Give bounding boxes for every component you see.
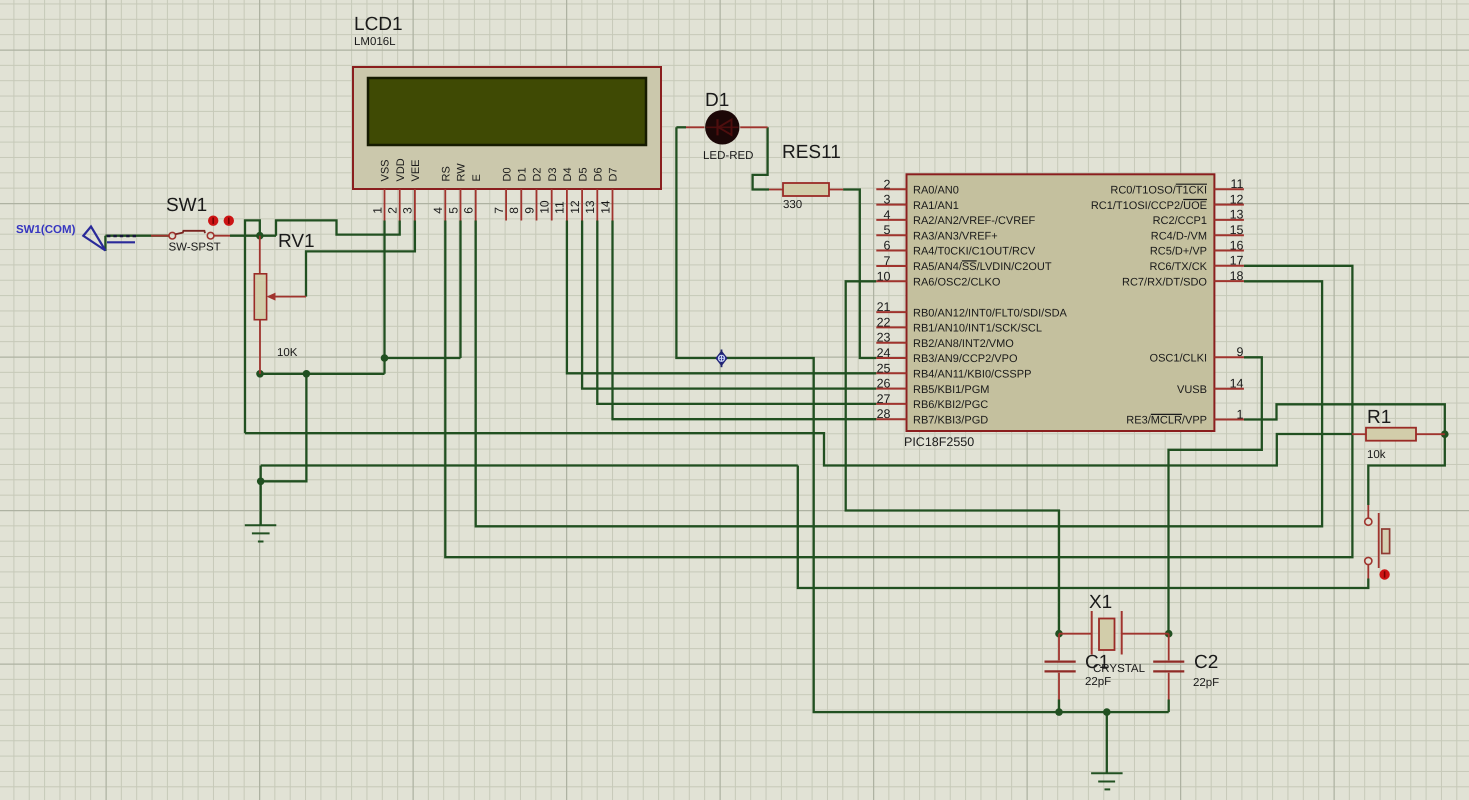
svg-text:RC0/T1OSO/T1CKI: RC0/T1OSO/T1CKI — [1110, 185, 1207, 197]
svg-text:LM016L: LM016L — [354, 36, 396, 48]
svg-text:D1: D1 — [705, 90, 729, 111]
svg-text:RV1: RV1 — [278, 231, 315, 252]
svg-text:D7: D7 — [608, 167, 620, 181]
svg-text:17: 17 — [1230, 254, 1244, 268]
svg-text:12: 12 — [568, 200, 582, 214]
ground 2 junction — [1103, 708, 1111, 716]
push button actuator dot — [1379, 569, 1389, 579]
svg-text:SW1(COM): SW1(COM) — [16, 224, 76, 236]
potentiometer RV1 wiper — [274, 296, 306, 298]
wire +5V rail to R1 — [245, 433, 1352, 465]
potentiometer RV1 body — [254, 274, 266, 320]
wire OSC2 pin10 to crystal left — [846, 281, 1059, 633]
svg-text:RA4/T0CKI/C1OUT/RCV: RA4/T0CKI/C1OUT/RCV — [913, 246, 1036, 258]
microcontroller U1 left pin stubs — [876, 188, 906, 190]
svg-text:RB5/KBI1/PGM: RB5/KBI1/PGM — [913, 384, 989, 396]
svg-text:10k: 10k — [1367, 449, 1386, 461]
svg-text:D1: D1 — [517, 167, 529, 181]
crystal left junction — [1055, 630, 1063, 638]
svg-text:13: 13 — [583, 200, 597, 214]
wire C2 bottom — [1168, 700, 1170, 713]
svg-text:E: E — [471, 174, 483, 181]
svg-text:21: 21 — [877, 300, 891, 314]
RV1 bottom junction — [256, 370, 264, 378]
svg-text:2: 2 — [884, 177, 891, 191]
svg-text:8: 8 — [507, 207, 521, 214]
svg-text:22pF: 22pF — [1085, 676, 1111, 688]
ground node junction — [257, 478, 265, 486]
svg-text:RA2/AN2/VREF-/CVREF: RA2/AN2/VREF-/CVREF — [913, 215, 1036, 227]
svg-text:RS: RS — [441, 166, 453, 181]
crystal X1 — [1091, 611, 1093, 655]
svg-text:RB3/AN9/CCP2/VPO: RB3/AN9/CCP2/VPO — [913, 353, 1018, 365]
svg-text:LCD1: LCD1 — [354, 14, 403, 35]
svg-text:RC6/TX/CK: RC6/TX/CK — [1150, 261, 1208, 273]
capacitor C1 plates — [1045, 660, 1076, 662]
svg-text:D2: D2 — [532, 167, 544, 181]
svg-text:D3: D3 — [547, 167, 559, 181]
svg-text:1: 1 — [1237, 407, 1244, 421]
microcontroller U1 overlines — [1176, 183, 1207, 185]
wire node A to +5V rail — [245, 220, 260, 433]
svg-text:18: 18 — [1230, 269, 1244, 283]
svg-text:D5: D5 — [577, 167, 589, 181]
svg-text:14: 14 — [1230, 377, 1244, 391]
wire OSC1 pin 9 to crystal right — [1169, 357, 1262, 633]
R1/MCLR junction — [1441, 430, 1449, 438]
ground 1 — [260, 481, 262, 525]
svg-text:RB6/KBI2/PGC: RB6/KBI2/PGC — [913, 399, 988, 411]
capacitor C1 leads — [1058, 634, 1060, 661]
wire ground 2 stem — [1106, 712, 1108, 773]
resistor R1 body — [1366, 428, 1416, 441]
node A junction — [256, 232, 264, 240]
svg-text:13: 13 — [1230, 208, 1244, 222]
svg-text:RW: RW — [456, 163, 468, 182]
capacitor C2 leads — [1168, 634, 1170, 661]
ground 2 — [1091, 772, 1123, 774]
wire ground node stem — [260, 466, 262, 482]
svg-text:4: 4 — [884, 208, 891, 222]
svg-text:RA3/AN3/VREF+: RA3/AN3/VREF+ — [913, 230, 998, 242]
svg-text:10: 10 — [538, 200, 552, 214]
ground branch junction — [303, 370, 311, 378]
wire D4 to RB4 — [567, 221, 876, 374]
svg-text:RC5/D+/VP: RC5/D+/VP — [1150, 246, 1207, 258]
svg-text:9: 9 — [1237, 345, 1244, 359]
svg-text:RC7/RX/DT/SDO: RC7/RX/DT/SDO — [1122, 276, 1207, 288]
wire terminal stem — [104, 236, 106, 251]
svg-text:D4: D4 — [562, 167, 574, 181]
svg-text:RA5/AN4/SS/LVDIN/C2OUT: RA5/AN4/SS/LVDIN/C2OUT — [913, 261, 1052, 273]
switch SW1 — [151, 235, 169, 237]
svg-text:RA1/AN1: RA1/AN1 — [913, 200, 959, 212]
svg-text:28: 28 — [877, 407, 891, 421]
microcontroller U1 right pin stubs — [1214, 188, 1244, 190]
potentiometer RV1 leads — [259, 236, 261, 274]
wire VSS net — [383, 221, 385, 374]
svg-text:10: 10 — [877, 269, 891, 283]
VSS/RW junction — [381, 354, 389, 362]
svg-text:VDD: VDD — [395, 158, 407, 181]
wire RV1 bottom to ground node — [261, 374, 307, 482]
wire LED cathode to ground bus — [676, 127, 1168, 712]
svg-text:5: 5 — [446, 207, 460, 214]
svg-text:11: 11 — [553, 201, 567, 214]
wire C1 bottom — [1058, 700, 1060, 713]
LED D1 body — [705, 110, 739, 144]
svg-text:RE3/MCLR/VPP: RE3/MCLR/VPP — [1126, 415, 1207, 427]
svg-text:27: 27 — [877, 392, 891, 406]
wire D5 to RB5 — [582, 221, 876, 389]
svg-text:X1: X1 — [1089, 592, 1112, 613]
push button leads — [1367, 505, 1369, 518]
svg-text:7: 7 — [884, 254, 891, 268]
svg-text:RA0/AN0: RA0/AN0 — [913, 185, 959, 197]
svg-text:OSC1/CLKI: OSC1/CLKI — [1150, 353, 1207, 365]
wire RES11 to RB3 pin 24 — [843, 190, 876, 359]
wire SW1 to node A — [230, 235, 276, 237]
wire E to RC7 pin 18 — [476, 221, 1322, 527]
svg-text:RB4/AN11/KBI0/CSSPP: RB4/AN11/KBI0/CSSPP — [913, 369, 1031, 381]
svg-text:7: 7 — [492, 207, 506, 214]
LCD LCD1 screen — [368, 78, 646, 145]
svg-text:24: 24 — [877, 346, 891, 360]
LCD LCD1 body — [353, 67, 661, 189]
svg-text:VEE: VEE — [410, 159, 422, 181]
svg-text:PIC18F2550: PIC18F2550 — [904, 435, 974, 449]
origin marker — [716, 350, 727, 368]
resistor RES11 leads — [769, 189, 783, 191]
wire RS to RC6 pin 17 — [445, 221, 1352, 558]
capacitor C2 plates — [1153, 660, 1184, 662]
wire node A jog up to VDD route — [276, 220, 400, 235]
svg-text:6: 6 — [462, 207, 476, 214]
push button — [1365, 518, 1372, 525]
crystal X1 leads — [1059, 633, 1092, 635]
svg-text:15: 15 — [1230, 223, 1244, 237]
svg-text:CRYSTAL: CRYSTAL — [1093, 663, 1146, 675]
svg-text:11: 11 — [1231, 177, 1244, 191]
microcontroller U1 PIC18F2550 body — [907, 174, 1215, 431]
LED D1 leads — [686, 126, 705, 128]
svg-text:4: 4 — [431, 207, 445, 214]
wire VSS to RV1 bottom — [260, 373, 385, 375]
wire LED anode jog to RES11 — [753, 127, 769, 189]
svg-text:10K: 10K — [277, 347, 298, 359]
svg-text:LED-RED: LED-RED — [703, 150, 753, 162]
svg-text:RB0/AN12/INT0/FLT0/SDI/SDA: RB0/AN12/INT0/FLT0/SDI/SDA — [913, 307, 1068, 319]
svg-text:330: 330 — [783, 199, 802, 211]
svg-text:6: 6 — [884, 239, 891, 253]
svg-text:22pF: 22pF — [1193, 677, 1219, 689]
wire R1 node to button top — [1368, 434, 1445, 505]
svg-text:SW-SPST: SW-SPST — [169, 242, 221, 254]
terminal SW1(COM) symbol — [83, 227, 105, 251]
svg-text:VUSB: VUSB — [1177, 384, 1207, 396]
wire RW to VSS node — [459, 221, 461, 359]
svg-text:RB2/AN8/INT2/VMO: RB2/AN8/INT2/VMO — [913, 338, 1014, 350]
svg-text:14: 14 — [598, 200, 612, 214]
svg-text:R1: R1 — [1367, 407, 1391, 428]
crystal right junction — [1165, 630, 1173, 638]
svg-text:D0: D0 — [501, 167, 513, 181]
LCD LCD1 pin stubs — [384, 189, 386, 221]
svg-text:5: 5 — [884, 223, 891, 237]
svg-text:12: 12 — [1230, 192, 1244, 206]
wire ground rail left — [261, 464, 798, 466]
svg-text:RB7/KBI3/PGD: RB7/KBI3/PGD — [913, 414, 988, 426]
svg-text:26: 26 — [877, 377, 891, 391]
svg-text:RES11: RES11 — [782, 142, 841, 163]
resistor R1 leads — [1352, 433, 1366, 435]
svg-text:25: 25 — [877, 361, 891, 375]
svg-text:RC4/D-/VM: RC4/D-/VM — [1151, 230, 1207, 242]
svg-text:23: 23 — [877, 331, 891, 345]
svg-text:RC1/T1OSI/CCP2/UOE: RC1/T1OSI/CCP2/UOE — [1091, 200, 1207, 212]
svg-text:16: 16 — [1230, 238, 1244, 252]
svg-text:RB1/AN10/INT1/SCK/SCL: RB1/AN10/INT1/SCK/SCL — [913, 323, 1042, 335]
switch SW1 actuator dots — [208, 216, 218, 226]
svg-text:1: 1 — [370, 207, 384, 214]
svg-text:SW1: SW1 — [166, 195, 207, 216]
svg-text:C2: C2 — [1194, 652, 1218, 673]
svg-text:9: 9 — [522, 207, 536, 214]
wire RV1 wiper to VEE — [306, 221, 415, 297]
svg-text:RA6/OSC2/CLKO: RA6/OSC2/CLKO — [913, 277, 1001, 289]
svg-text:3: 3 — [884, 193, 891, 207]
C1 ground junction — [1055, 708, 1063, 716]
wire ground rail to button — [798, 466, 1369, 589]
svg-text:22: 22 — [877, 315, 891, 329]
wire D7 to RB7 — [613, 221, 877, 420]
wire terminal to SW1 — [105, 235, 169, 237]
svg-text:3: 3 — [401, 207, 415, 214]
wire MCLR pin 1 to R1 node — [1244, 404, 1445, 434]
svg-text:D6: D6 — [593, 167, 605, 181]
svg-text:2: 2 — [386, 207, 400, 214]
svg-text:RC2/CCP1: RC2/CCP1 — [1153, 215, 1207, 227]
resistor RES11 body — [783, 183, 829, 196]
wire D6 to RB6 — [597, 221, 876, 404]
svg-text:VSS: VSS — [380, 159, 392, 181]
